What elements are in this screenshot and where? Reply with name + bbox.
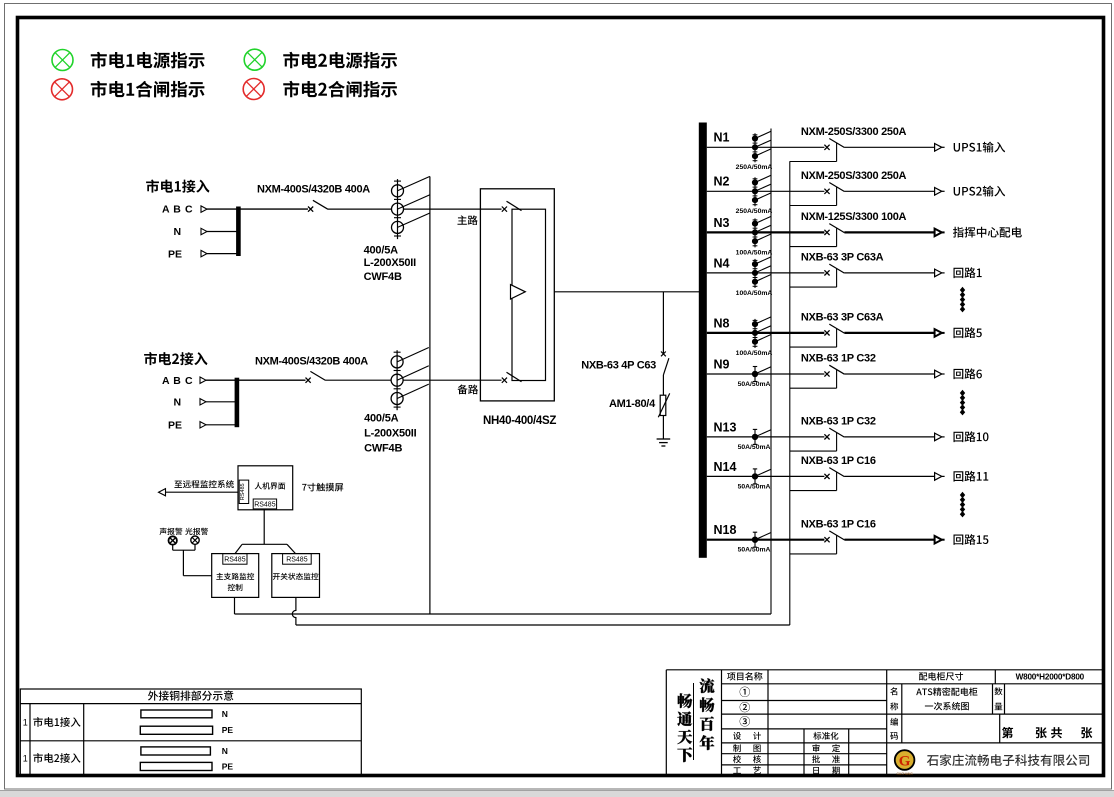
svg-text:NH40-400/4SZ: NH40-400/4SZ [483,415,556,427]
label 400/5A L-200X50II CWF4B (CT1) [364,244,417,283]
label 日期 [813,767,840,775]
wire input2 ABC to breaker [206,379,306,381]
breaker N14 NXB-63 1P C16 [824,468,844,479]
svg-text:L-200X50II: L-200X50II [364,427,417,439]
company logo [895,750,915,776]
copper bar row1 PE [140,725,233,735]
wire N4 breaker to outgoing arrow [844,272,934,274]
svg-text:400/5A: 400/5A [364,244,399,256]
label PE (input2) [168,420,182,432]
label circled 3 [740,716,750,726]
aux hook N14 to switch-status bus [790,472,837,491]
ATS backup contact (bottom switch) [502,372,522,383]
breaker N3 NXM-125S/3300 100A [824,224,844,235]
svg-text:CWF4B: CWF4B [364,271,402,283]
copper bar row1 N [141,709,228,719]
node N2 label [714,175,730,189]
label 批准 [812,755,840,763]
svg-text:RS485: RS485 [240,483,246,500]
label 制图 [733,744,761,752]
breaker N1 NXM-250S/3300 250A [824,139,844,150]
table row1 qty 1 [23,717,28,727]
label circled 2 [740,702,750,712]
ATS main contact (top switch) [502,201,522,212]
label N8 CT 100A/50mA [736,350,773,357]
label 审定 [812,744,840,752]
wire input1 ABC to breaker [207,208,308,210]
wire N9 busbar to breaker [707,373,825,375]
CT N2 250A/50mA [752,175,771,206]
label 市电2接入 [144,352,207,365]
ellipsis between 回路6 and 回路10 [960,390,965,416]
wire N3 breaker to outgoing arrow [844,231,934,233]
node N9 label [714,357,730,371]
svg-text:NXB-63 1P C32: NXB-63 1P C32 [801,353,876,365]
node N3 label [714,216,730,230]
CT N13 50A/50mA [752,429,771,444]
label phase A B C (input1) [162,204,193,216]
wire N13 breaker to outgoing arrow [844,436,934,438]
wire alarms to branch monitor [173,544,212,575]
wire input2 PE to busbar [206,424,239,426]
label N (input1) [174,226,182,238]
switch status RS485 port [283,554,312,565]
indicator lamp HL1 green [52,50,73,71]
wire CT2 to ATS backup input [403,379,501,381]
outgoing terminal N2 [935,188,945,196]
svg-text:A B C: A B C [162,204,193,216]
label 主路 [457,215,477,225]
label circuit name N4 回路1 [953,267,981,278]
svg-text:A B C: A B C [162,375,193,387]
wire N13 busbar to breaker [707,436,825,438]
svg-text:W800*H2000*D800: W800*H2000*D800 [1016,672,1085,681]
label 数量 [994,687,1002,710]
svg-text:50A/50mA: 50A/50mA [738,444,771,451]
CT secondary bus (left, x=430) [429,177,431,615]
svg-text:N4: N4 [714,256,730,270]
breaker N9 NXB-63 1P C32 [824,365,844,376]
label circuit name N14 回路11 [953,471,988,482]
aux hook N4 to switch-status bus [790,269,837,288]
svg-text:N2: N2 [714,175,730,189]
label 第 张 共 张 [1002,727,1092,738]
wire N14 breaker to outgoing arrow [844,475,934,477]
breaker QF3 NXB-63 4P C63 (vertical) [661,352,669,375]
ellipsis between 回路11 and 回路15 [960,492,965,518]
svg-text:N14: N14 [714,460,737,474]
aux hook N3 to switch-status bus [790,228,837,247]
terminal input2 ABC [200,377,206,383]
current transformer CT2 group 400/5A [391,350,403,410]
wire surge branch drop [662,292,664,354]
CT secondary bus (right, x=771) [770,129,772,615]
label circuit name N3 指挥中心配电 [953,227,1022,238]
label breaker N9 NXB-63 1P C32 [801,353,876,365]
CT2 secondary diagonals [397,348,429,399]
label N4 CT 100A/50mA [736,290,773,297]
svg-text:NXM-250S/3300 250A: NXM-250S/3300 250A [801,126,907,138]
label 编码 [890,718,898,740]
CT N3 100A/50mA [752,216,771,247]
wire N3 busbar to breaker [707,231,825,233]
busbar input1 (thick) [236,207,241,257]
svg-text:NXB-63 1P C16: NXB-63 1P C16 [801,518,876,530]
label breaker N13 NXB-63 1P C32 [801,416,876,428]
label PE (input1) [168,248,182,260]
svg-text:400/5A: 400/5A [364,413,399,425]
svg-text:N9: N9 [714,357,730,371]
wire QF1 to CT1 [328,208,392,210]
wire N8 breaker to outgoing arrow [844,332,934,334]
aux hook N18 to switch-status bus [790,535,837,554]
svg-text:N: N [174,397,182,409]
svg-text:NXB-63 3P C63A: NXB-63 3P C63A [801,312,884,324]
switch status bus (x=789.8) [789,161,791,625]
current transformer CT1 group 400/5A [392,179,404,239]
wire N14 busbar to breaker [707,475,825,477]
wire N2 busbar to breaker [707,190,825,192]
wire SPD to ground [662,416,664,440]
wire N8 busbar to breaker [707,332,825,334]
svg-text:N: N [174,226,182,238]
CT N1 250A/50mA [752,131,771,162]
label 外接铜排部分示意 [148,690,233,700]
label 至远程监控系统 [174,480,233,488]
svg-text:NXB-63 3P C63A: NXB-63 3P C63A [801,252,884,264]
svg-text:G: G [899,754,911,770]
label 设计 [733,732,761,740]
copper bar table frame [20,689,361,776]
outgoing terminal N1 [935,144,945,152]
HMI box 人机界面 [238,466,293,510]
breaker QF1 [308,200,328,211]
label 配电柜尺寸 [919,672,963,680]
svg-text:50A/50mA: 50A/50mA [738,547,771,554]
outgoing terminal N8 [935,329,945,337]
label N9 CT 50A/50mA [738,381,771,388]
label circuit name N18 回路15 [953,534,988,545]
label 声报警 [159,528,182,535]
calligraphy 畅通天下 [677,693,692,762]
svg-text:N: N [222,709,228,719]
label 主支路监控 控制 [216,573,254,591]
legend label 市电2电源指示 [283,52,397,69]
terminal input1 ABC [201,206,207,212]
svg-text:50A/50mA: 50A/50mA [738,483,771,490]
copper bar row2 PE [140,761,233,771]
CT N18 50A/50mA [752,532,771,547]
wire input1 PE to busbar [207,253,240,255]
label 市电1接入 [146,179,209,192]
svg-text:N18: N18 [714,523,737,537]
label ATS精密配电柜 [916,687,977,695]
label N13 CT 50A/50mA [738,444,771,451]
surge protective device AM1-80/4 [658,393,669,417]
label breaker N2 NXM-250S/3300 250A [801,170,907,182]
svg-text:AM1-80/4: AM1-80/4 [609,398,656,410]
table row2 qty 1 [23,753,28,763]
label phase A B C (input2) [162,375,193,387]
svg-text:N13: N13 [714,420,737,434]
node N8 label [714,316,730,330]
label 工艺 [733,766,761,774]
node N13 label [714,420,737,434]
label W800*H2000*D800 [1016,672,1085,681]
label N3 CT 100A/50mA [736,249,773,256]
svg-text:NXB-63 1P C32: NXB-63 1P C32 [801,416,876,428]
aux hook N1 to switch-status bus [790,143,837,162]
node N4 label [714,256,730,270]
svg-text:GUCHANG: GUCHANG [896,772,913,776]
label circuit name N13 回路10 [953,431,988,442]
switch status monitor box 开关状态监控 [272,554,320,598]
wire QF2 to CT2 [326,379,392,381]
svg-text:RS485: RS485 [286,556,308,563]
CT N14 50A/50mA [752,469,771,484]
node N18 label [714,523,737,537]
outgoing terminal N3 [935,229,945,237]
wire N1 busbar to breaker [707,146,825,148]
HMI RS485 port (left, rotated) [239,480,249,503]
svg-text:100A/50mA: 100A/50mA [736,249,773,256]
breaker N4 NXB-63 3P C63A [824,264,844,275]
label NXB-63 4P C63 [581,360,656,372]
label N14 CT 50A/50mA [738,483,771,490]
label 标准化 [813,732,838,740]
svg-text:PE: PE [168,248,182,260]
wire QF3 to SPD [662,375,664,395]
label 名称 [890,687,898,710]
label breaker N14 NXB-63 1P C16 [801,455,876,467]
calligraphy divider [693,683,695,760]
outgoing terminal N14 [935,473,945,481]
outgoing terminal N9 [935,370,945,378]
label circuit name N2 UPS2输入 [954,186,1005,197]
breaker N13 NXB-63 1P C32 [824,428,844,439]
svg-text:250A/50mA: 250A/50mA [736,164,773,171]
svg-text:N: N [222,746,228,756]
label circled 1 [740,687,750,697]
svg-text:NXM-400S/4320B 400A: NXM-400S/4320B 400A [255,356,368,368]
sound alarm symbol [169,536,177,544]
label NXM-400S/4320B 400A (QF1) [257,183,370,195]
label 7寸触摸屏 [302,483,343,492]
wire HMI to monitors split [235,509,295,554]
label breaker N1 NXM-250S/3300 250A [801,126,907,138]
branch monitor box 主支路监控控制 [212,554,259,598]
label circuit name N8 回路5 [953,327,981,338]
svg-text:PE: PE [222,761,234,771]
svg-text:1: 1 [23,753,28,763]
svg-text:NXM-125S/3300 100A: NXM-125S/3300 100A [801,211,907,223]
svg-text:NXB-63 1P C16: NXB-63 1P C16 [801,455,876,467]
outgoing terminal N4 [935,269,945,277]
wire CT1 to ATS main input [404,208,502,210]
window bottom gray strip [0,791,1114,797]
svg-text:NXM-400S/4320B 400A: NXM-400S/4320B 400A [257,183,370,195]
terminal input2 N [200,399,206,405]
copper bar row2 N [141,746,228,756]
label NXM-400S/4320B 400A (QF2) [255,356,368,368]
wire ATS output to main busbar [554,291,699,293]
svg-text:50A/50mA: 50A/50mA [738,381,771,388]
svg-text:RS485: RS485 [254,502,276,509]
label breaker N18 NXB-63 1P C16 [801,518,876,530]
outgoing terminal N13 [935,433,945,441]
node N1 label [714,131,730,145]
svg-text:PE: PE [222,725,234,735]
CT N8 100A/50mA [752,317,771,348]
label breaker N4 NXB-63 3P C63A [801,252,884,264]
main busbar N (thick vertical) [699,123,707,558]
label 项目名称 [727,672,762,680]
company name 石家庄流畅电子科技有限公司 [927,754,1089,766]
svg-text:100A/50mA: 100A/50mA [736,350,773,357]
legend label 市电2合闸指示 [283,81,397,98]
breaker N2 NXM-250S/3300 250A [824,183,844,194]
label 市电2接入 (table) [33,753,80,763]
label circuit name N9 回路6 [953,368,981,379]
svg-text:N3: N3 [714,216,730,230]
wire branch monitor to CT bus line1 [235,597,772,614]
calligraphy 流畅百年 [700,678,715,750]
svg-text:CWF4B: CWF4B [364,443,402,455]
indicator lamp HL2 green [244,49,265,70]
label N (input2) [174,397,182,409]
breaker N18 NXB-63 1P C16 [824,531,844,542]
aux hook N13 to switch-status bus [790,433,837,452]
wire N1 breaker to outgoing arrow [844,146,934,148]
aux hook N8 to switch-status bus [790,329,837,348]
HMI RS485 port (bottom) [253,499,276,509]
label N2 CT 250A/50mA [736,208,773,215]
label 人机界面 [255,482,286,489]
aux hook N2 to switch-status bus [790,187,837,206]
wire to remote monitoring with arrow [159,489,239,496]
label 备路 [458,384,479,394]
svg-text:RS485: RS485 [224,556,246,563]
indicator lamp HL3 red [52,79,73,100]
ATS NH40-400/4SZ box [480,189,554,401]
label circuit name N1 UPS1输入 [954,142,1005,153]
terminal input1 N [201,228,207,234]
svg-text:100A/50mA: 100A/50mA [736,290,773,297]
svg-text:NXB-63 4P C63: NXB-63 4P C63 [581,360,656,372]
CT N9 50A/50mA [752,367,771,382]
wire N18 breaker to outgoing arrow [844,539,934,541]
terminal input2 PE [200,422,206,428]
ATS actuator triangle [511,285,526,299]
title block grid [666,670,1104,776]
ground symbol [657,439,671,446]
outgoing terminal N18 [935,536,945,544]
ellipsis between 回路1 and 回路5 [960,287,965,313]
terminal input1 PE [201,250,207,256]
branch monitor RS485 port [223,554,247,565]
label NH40-400/4SZ [483,415,556,427]
wire input1 N to busbar [207,231,238,233]
indicator lamp HL4 red [243,79,264,100]
wire N18 busbar to breaker [707,539,825,541]
label 400/5A L-200X50II CWF4B (CT2) [364,413,417,455]
svg-text:250A/50mA: 250A/50mA [736,208,773,215]
busbar input2 (thick) [235,378,240,428]
label 校核 [733,755,761,763]
legend label 市电1电源指示 [91,52,205,69]
label AM1-80/4 [609,398,656,410]
label N18 CT 50A/50mA [738,547,771,554]
label 光报警 [185,528,208,535]
label 开关状态监控 [273,573,319,580]
wire N9 breaker to outgoing arrow [844,373,934,375]
ATS inner frame [512,209,546,380]
wire input2 N to busbar [206,401,237,403]
breaker QF2 [306,371,326,382]
svg-text:PE: PE [168,420,182,432]
label N1 CT 250A/50mA [736,164,773,171]
breaker N8 NXB-63 3P C63A [824,324,844,335]
CT N4 100A/50mA [752,257,771,288]
svg-text:N8: N8 [714,316,730,330]
wire switch monitor to aux bus line2 with hop [292,597,789,625]
svg-text:L-200X50II: L-200X50II [364,257,417,269]
label breaker N3 NXM-125S/3300 100A [801,211,907,223]
wire N2 breaker to outgoing arrow [844,190,934,192]
label breaker N8 NXB-63 3P C63A [801,312,884,324]
svg-text:N1: N1 [714,131,730,145]
label 市电1接入 (table) [33,717,80,727]
legend label 市电1合闸指示 [91,81,205,98]
light alarm symbol [191,536,199,544]
label 一次系统图 [925,702,969,710]
aux hook N9 to switch-status bus [790,370,837,389]
svg-text:NXM-250S/3300 250A: NXM-250S/3300 250A [801,170,907,182]
node N14 label [714,460,737,474]
wire N4 busbar to breaker [707,272,825,274]
CT1 secondary diagonals [398,176,430,227]
svg-text:1: 1 [23,717,28,727]
